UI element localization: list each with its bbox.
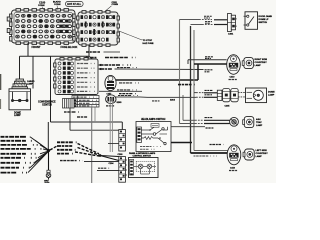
wire to ash tray row — [180, 123, 196, 125]
wire branch to lamp housing — [32, 56, 34, 88]
lower fuse block — [54, 58, 98, 95]
wire v3 dark — [190, 26, 192, 153]
svg-text:LAMP: LAMP — [27, 82, 33, 85]
svg-text:G401: G401 — [45, 181, 51, 183]
label on wire y168 — [98, 167, 110, 169]
wire horizontal y122 — [51, 121, 123, 123]
wire labels right courtesy — [205, 56, 214, 58]
left courtesy lamp symbol — [243, 149, 254, 160]
wire up bend — [197, 64, 199, 80]
svg-text:SWITCH: SWITCH — [259, 22, 268, 24]
wire horizontal y170.5 — [97, 170, 119, 172]
svg-text:LAMP: LAMP — [256, 155, 263, 158]
wire down to dome lamp — [19, 56, 21, 79]
wire thick from C257 to right — [116, 79, 198, 81]
ash tray lamp symbol — [243, 117, 254, 128]
svg-text:CENTER: CENTER — [42, 103, 52, 106]
headlamp switch inner labels — [140, 146, 162, 148]
dome lamp housing — [9, 89, 31, 110]
ground connector G401 — [46, 170, 51, 179]
wires S1 to S2 — [50, 144, 99, 157]
wire labels jamb — [204, 16, 212, 23]
connector C204 strip — [119, 157, 126, 183]
svg-text:FRONT: FRONT — [32, 45, 41, 49]
label C100 leader — [38, 0, 46, 10]
fuse labels right of lower fuse block — [101, 65, 131, 69]
svg-text:CONN: CONN — [112, 4, 119, 6]
wire into C203 left — [108, 143, 119, 145]
bulkhead connector C100 — [7, 9, 75, 45]
label under bend — [194, 155, 220, 157]
wire v2 gray — [182, 95, 184, 120]
svg-text:C204: C204 — [109, 162, 115, 165]
svg-text:LEFT SIDE: LEFT SIDE — [256, 150, 268, 152]
wire horizontal y130 — [70, 129, 119, 131]
wire down to C203 — [121, 122, 123, 130]
svg-text:HAZ FUSE: HAZ FUSE — [143, 42, 154, 45]
svg-text:DOME: DOME — [268, 91, 275, 93]
label bulkhead leader — [53, 2, 61, 10]
fuse label arrows — [98, 64, 101, 70]
wire S-bend to dome row — [116, 96, 196, 98]
svg-text:C100: C100 — [39, 0, 46, 4]
wire horizontal bus y56 — [20, 55, 90, 57]
svg-text:HOT AT ALL: HOT AT ALL — [67, 3, 81, 6]
dashes C204 to control switch — [125, 160, 128, 175]
wire label on thick line — [119, 82, 140, 84]
wire down to splice S1 — [47, 122, 49, 150]
connector oval 2 — [106, 95, 116, 104]
svg-text:LAMP: LAMP — [256, 124, 263, 127]
connector C301 (jamb switch) — [228, 14, 237, 32]
right courtesy lamp symbol — [242, 58, 253, 69]
splice S2 wires east — [100, 156, 119, 161]
wire below S1 — [48, 151, 50, 172]
dome lamp (cargo) cap — [12, 79, 28, 89]
control switch box — [129, 158, 159, 178]
svg-text:RIGHT SIDE: RIGHT SIDE — [255, 59, 268, 61]
svg-text:C203: C203 — [118, 154, 124, 156]
wire diagonal to lower fuse block — [89, 56, 93, 59]
svg-text:FUSE BLOCK: FUSE BLOCK — [61, 45, 78, 49]
C100 terminal grid — [16, 14, 72, 38]
splice S1 node — [47, 149, 50, 152]
wire row y91 — [99, 90, 142, 92]
svg-text:DOOR JAMB: DOOR JAMB — [259, 15, 273, 18]
wire labels below fuse block C202 — [86, 52, 136, 58]
splice S1 converging wires — [28, 137, 49, 173]
splice S1 right labels — [57, 142, 77, 153]
right courtesy socket — [227, 55, 241, 75]
wire bend gray to left courtesy — [194, 150, 228, 152]
svg-text:ASH: ASH — [256, 118, 261, 121]
svg-text:C410: C410 — [230, 166, 236, 169]
connector C203 strip — [119, 130, 126, 152]
wire C100 down — [27, 43, 29, 56]
label C202 leader — [104, 2, 119, 13]
splice S1 label rows — [1, 137, 44, 173]
scan edge smears — [0, 74, 1, 90]
label under connector box — [64, 111, 82, 113]
fuse block C202 (upper middle) — [77, 11, 120, 47]
svg-text:CONN: CONN — [38, 5, 45, 7]
vertical wire x110 pair — [109, 98, 111, 152]
label near C203 riser — [119, 93, 136, 95]
wire from connector box — [69, 108, 71, 130]
wires to right courtesy lamp — [188, 59, 227, 61]
dome lamp connectors — [217, 88, 238, 101]
vertical wire x91.7 — [91, 107, 93, 183]
vertical wire x95 short — [94, 108, 96, 123]
wire from headlamp box right — [171, 126, 205, 128]
svg-text:S205: S205 — [117, 102, 123, 104]
legend table — [72, 96, 99, 108]
wire label on oval2 line — [118, 95, 138, 97]
svg-text:C305: C305 — [225, 105, 231, 107]
dome lamp box — [246, 88, 267, 103]
headlamps switch box — [136, 122, 171, 152]
svg-text:COURTESY: COURTESY — [256, 153, 269, 155]
svg-text:DOME LP: DOME LP — [259, 19, 270, 21]
wire bend to left courtesy (black) — [191, 152, 228, 154]
wire labels ash row — [205, 117, 214, 119]
wire v4 gray — [193, 30, 195, 151]
svg-text:C310: C310 — [230, 76, 236, 78]
dashes dome to lamp box — [238, 92, 245, 94]
connector box hatched — [63, 99, 75, 109]
lower fuse block rows — [58, 62, 95, 93]
label on wire — [60, 160, 83, 162]
wire horizontal y161.5 — [84, 161, 119, 163]
wire label bar mid harness — [178, 84, 195, 86]
svg-text:LAMP: LAMP — [14, 114, 21, 117]
label HOT AT ALL TIMES box — [66, 1, 84, 6]
svg-text:HEADLAMPS SWITCH: HEADLAMPS SWITCH — [141, 118, 166, 121]
svg-text:C301: C301 — [228, 34, 234, 36]
svg-text:LAMP: LAMP — [268, 93, 275, 96]
svg-text:TRAY: TRAY — [256, 121, 262, 124]
wire to convenience center — [50, 56, 52, 122]
svg-text:COURTESY: COURTESY — [255, 62, 268, 64]
svg-text:S204: S204 — [170, 99, 176, 102]
wire stub right courtesy — [187, 60, 189, 64]
wire black from box to vB — [171, 142, 192, 144]
wire labels dome row — [205, 89, 214, 91]
svg-text:LAMP: LAMP — [255, 64, 262, 67]
wire label left courtesy top — [210, 144, 224, 146]
splice S2 node — [99, 154, 102, 157]
ash tray round connector — [230, 117, 239, 126]
door jamb switch box — [244, 12, 258, 30]
wire C202 down — [88, 45, 90, 56]
wire long from fuse row — [115, 68, 204, 71]
C202 fuses grid — [81, 15, 116, 41]
wire v1 gray — [179, 20, 181, 124]
connector C257 oval — [105, 75, 116, 90]
left courtesy socket — [227, 145, 241, 165]
label C258 — [106, 105, 115, 107]
svg-text:CONN: CONN — [54, 4, 61, 6]
wire label on long line — [117, 67, 138, 69]
wire to door jamb switch top — [180, 20, 228, 25]
label right of fuse block leader — [119, 31, 154, 45]
